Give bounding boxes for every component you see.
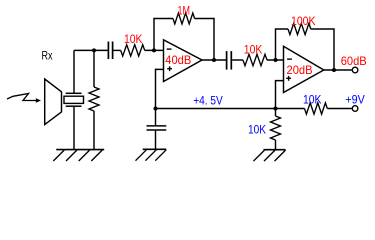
crystal X1: top plate bbox=[66, 92, 82, 94]
resistor R4 10K horizontal bbox=[243, 54, 267, 65]
wire: 100K to U2 output bbox=[311, 29, 334, 70]
resistor R2 10K horizontal bbox=[121, 45, 145, 56]
svg-text:+4. 5V: +4. 5V bbox=[193, 93, 223, 107]
svg-text:Rx: Rx bbox=[42, 48, 53, 62]
feedback loop: wire up from node bbox=[154, 19, 173, 51]
+4.5V rail wire bbox=[156, 108, 305, 110]
output terminal circle bbox=[352, 67, 358, 73]
wire: R1 bottom lead bbox=[93, 111, 95, 150]
U1 plus sign bbox=[167, 66, 172, 71]
wire: U2 non-inverting input down to rail bbox=[276, 81, 284, 116]
node A: input top wire bbox=[74, 49, 108, 51]
resistor R5 100K zigzag bbox=[288, 23, 311, 34]
wire: U2 output bbox=[324, 69, 353, 71]
wire: U1 output bbox=[202, 59, 226, 61]
wire: crystal top lead bbox=[73, 50, 75, 93]
ground G2 bbox=[143, 148, 167, 150]
arrow: incoming ultrasound squiggle bbox=[7, 94, 37, 101]
svg-text:+9V: +9V bbox=[345, 92, 365, 106]
svg-text:60dB: 60dB bbox=[341, 54, 367, 68]
wire: C3 to R4 bbox=[232, 59, 243, 61]
speaker horn of receiver bbox=[45, 79, 62, 125]
capacitor C3 plates bbox=[226, 51, 228, 70]
junction dot: U2 inverting node bbox=[274, 58, 278, 62]
junction dot at U1 output bbox=[212, 58, 216, 62]
U1 minus sign bbox=[167, 48, 172, 50]
ground G1 bbox=[56, 149, 104, 151]
wire: U1 non-inverting input to rail bbox=[156, 69, 164, 108]
svg-text:10K: 10K bbox=[244, 42, 262, 56]
wire: crystal bottom lead bbox=[73, 107, 75, 150]
svg-text:10K: 10K bbox=[124, 32, 143, 46]
wire: R4 to op-amp U2 inverting input bbox=[267, 59, 284, 61]
wire: C1 to R2 bbox=[113, 49, 120, 51]
wire: resistor R1 top lead bbox=[93, 50, 95, 87]
crystal X1: body rectangle bbox=[64, 96, 84, 103]
op-amp U2 triangle bbox=[284, 46, 324, 92]
wire: R6 to ground bbox=[275, 140, 277, 150]
svg-text:10K: 10K bbox=[303, 92, 322, 106]
crystal X1: bottom plate bbox=[66, 105, 82, 107]
resistor R3 1M zigzag bbox=[173, 13, 195, 24]
junction dot: U1 inverting node bbox=[152, 48, 156, 52]
feedback loop 2: wire up from node bbox=[276, 29, 289, 60]
svg-text:1M: 1M bbox=[178, 4, 191, 18]
resistor R6 10K vertical zigzag bbox=[271, 116, 281, 140]
capacitor C1 plates bbox=[107, 42, 109, 60]
svg-text:10K: 10K bbox=[248, 123, 266, 137]
op-amp U1 triangle bbox=[164, 40, 203, 82]
wire: C2 to ground bbox=[155, 130, 157, 149]
U2 plus sign bbox=[286, 76, 291, 81]
resistor R1 vertical zigzag bbox=[89, 87, 99, 111]
svg-text:20dB: 20dB bbox=[287, 63, 313, 77]
resistor R7 10K horizontal on rail bbox=[305, 103, 328, 114]
junction dot on rail right bbox=[274, 107, 278, 111]
capacitor C2 bypass: lead from rail bbox=[155, 109, 157, 126]
ground G3 bbox=[264, 149, 286, 151]
wire: 1M to U1 output bbox=[195, 19, 214, 61]
wire: R2 to op-amp U1 inverting input bbox=[145, 49, 164, 51]
junction dot at U2 output bbox=[332, 68, 336, 72]
junction dot at resistor top bbox=[92, 48, 96, 52]
wire: R7 to +9V terminal bbox=[327, 108, 352, 110]
U2 minus sign bbox=[287, 58, 292, 60]
junction dot on +4.5V rail left bbox=[154, 107, 158, 111]
C2 plates bbox=[147, 126, 167, 130]
svg-text:40dB: 40dB bbox=[165, 53, 191, 67]
+9V terminal circle bbox=[352, 106, 358, 112]
svg-text:100K: 100K bbox=[291, 14, 316, 28]
